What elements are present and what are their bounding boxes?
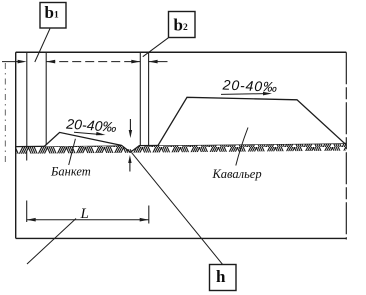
svg-text:h: h: [216, 267, 226, 286]
svg-text:20-40‰: 20-40‰: [221, 76, 278, 94]
svg-text:Банкет: Банкет: [50, 165, 91, 179]
svg-text:L: L: [80, 206, 89, 222]
svg-text:Кавальер: Кавальер: [212, 167, 262, 181]
